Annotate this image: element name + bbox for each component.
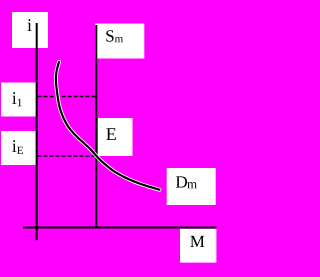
demand curve Dm white halo [56, 62, 160, 190]
dashed line at iE [38, 155, 97, 157]
horizontal axis (money axis) [23, 227, 216, 229]
label box Dm [167, 168, 216, 205]
dashed line at i1 [38, 96, 97, 98]
label box E [98, 118, 133, 156]
label box Sm [95, 24, 144, 59]
money supply line Sm (vertical) [95, 25, 97, 228]
text iE [12, 140, 23, 154]
text i (interest rate axis label) [27, 19, 31, 31]
label box i (vertical axis label) [12, 12, 48, 48]
label box i1 [1, 83, 36, 117]
text Sm (money supply label) [106, 30, 123, 42]
vertical axis (interest rate axis) [36, 23, 38, 240]
text Dm (money demand label) [176, 176, 197, 188]
text M (money axis label) [190, 236, 204, 247]
label box M (horizontal axis label) [180, 229, 216, 263]
text i1 [12, 92, 21, 106]
text E (equilibrium point label) [106, 128, 116, 140]
label box iE [1, 131, 36, 165]
demand curve Dm [56, 62, 160, 190]
